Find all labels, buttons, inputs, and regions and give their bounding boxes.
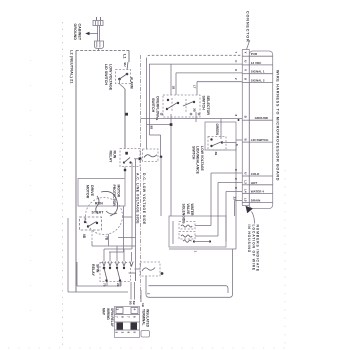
svg-text:LOW VOLTAGE: LOW VOLTAGE [109, 64, 113, 91]
svg-text:LOCATION OF WIRE: LOCATION OF WIRE [251, 225, 255, 272]
svg-text:NUMBERS INDICATE: NUMBERS INDICATE [256, 225, 260, 272]
svg-text:INSULATED: INSULATED [146, 309, 150, 328]
svg-text:LID/UNBALANCE: LID/UNBALANCE [196, 146, 200, 175]
svg-text:WIRE HARNESS TO MICROPROCESSOR: WIRE HARNESS TO MICROPROCESSOR BOARD [276, 70, 280, 181]
svg-text:LID SWITCH: LID SWITCH [104, 64, 108, 85]
svg-text:RUN: RUN [113, 151, 117, 159]
svg-text:WATER 4: WATER 4 [251, 190, 264, 194]
svg-text:CABINET: CABINET [77, 24, 81, 41]
svg-text:RELAY: RELAY [108, 151, 112, 163]
svg-text:LOW VOLTAGE: LOW VOLTAGE [200, 146, 204, 171]
svg-text:SELECTOR: SELECTOR [206, 96, 210, 116]
svg-text:L5: L5 [243, 198, 247, 202]
svg-text:GROUND: GROUND [73, 24, 77, 41]
svg-text:SWITCH: SWITCH [151, 98, 155, 113]
svg-text:LT: LT [193, 85, 197, 89]
svg-text:7B: 7B [104, 236, 108, 241]
svg-text:IN HOUSING: IN HOUSING [247, 225, 251, 254]
svg-text:LID SWITCH: LID SWITCH [251, 138, 268, 142]
svg-text:ALARM: ALARM [130, 77, 134, 89]
svg-text:U: U [243, 78, 247, 80]
svg-text:BU: BU [123, 63, 127, 67]
svg-text:GROUND: GROUND [255, 116, 269, 120]
svg-text:A.C. LINE VOLTAGE SIDE: A.C. LINE VOLTAGE SIDE [136, 173, 140, 224]
svg-text:SPIN: SPIN [96, 264, 100, 273]
svg-text:CONNECTOR: CONNECTOR [245, 11, 249, 43]
svg-text:DRIVE: DRIVE [90, 185, 94, 197]
svg-text:VALVE: VALVE [186, 204, 190, 216]
svg-text:WATER: WATER [190, 204, 194, 217]
svg-text:MOTOR: MOTOR [85, 185, 89, 199]
svg-text:COLD: COLD [251, 172, 260, 176]
svg-text:U: U [243, 172, 247, 174]
svg-text:SPIN RELAY: SPIN RELAY [110, 308, 114, 328]
svg-text:12 VDC: 12 VDC [251, 61, 262, 65]
svg-text:L4: L4 [243, 189, 247, 193]
svg-text:SIGNAL 2: SIGNAL 2 [251, 79, 265, 83]
svg-text:TERMINAL: TERMINAL [141, 309, 145, 326]
svg-text:L3: L3 [243, 180, 247, 184]
svg-text:SWITCH: SWITCH [202, 96, 206, 111]
svg-text:HOT: HOT [251, 181, 257, 185]
svg-text:6B: 6B [82, 234, 86, 239]
svg-text:U: U [243, 60, 247, 62]
svg-text:SIGNAL 1: SIGNAL 1 [251, 70, 265, 74]
svg-text:MAP: MAP [102, 308, 106, 316]
svg-text:GREEN: GREEN [215, 124, 219, 136]
svg-text:D.C. LOW VOLTAGE SIDE: D.C. LOW VOLTAGE SIDE [142, 173, 146, 225]
svg-text:DRAIN: DRAIN [251, 198, 260, 202]
svg-text:L1: L1 [122, 54, 127, 59]
svg-text:OVERFLOW: OVERFLOW [155, 96, 159, 117]
svg-text:MOTOR: MOTOR [116, 185, 120, 198]
svg-text:PUR: PUR [251, 52, 258, 56]
svg-text:WIRING: WIRING [106, 308, 110, 320]
svg-text:Y: Y [243, 52, 247, 54]
svg-text:SWITCH: SWITCH [191, 146, 195, 160]
svg-text:RELAY: RELAY [91, 264, 95, 276]
svg-text:V: V [243, 69, 247, 71]
svg-text:L2 (NEUTRAL) 21: L2 (NEUTRAL) 21 [70, 50, 74, 84]
svg-text:23: 23 [233, 197, 237, 201]
